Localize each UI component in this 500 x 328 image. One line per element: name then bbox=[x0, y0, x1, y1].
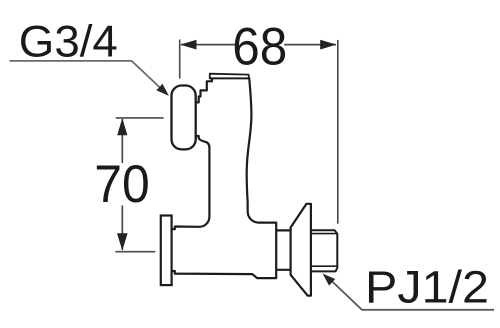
svg-text:70: 70 bbox=[94, 155, 150, 214]
dim 68: left extension line bbox=[179, 40, 181, 79]
PJ1/2 leader arrowhead bbox=[323, 274, 336, 286]
nipple PJ1/2 thread bbox=[308, 230, 337, 271]
dim 70: down arrowhead bbox=[117, 233, 128, 250]
neck to cone bbox=[276, 230, 290, 269]
dim 68: left arrowhead bbox=[180, 40, 196, 50]
dim 68: right arrowhead bbox=[320, 40, 336, 50]
dim 70: upper extension line bbox=[116, 117, 164, 119]
dim 68: right extension line bbox=[337, 40, 339, 224]
main body silhouette (pipe + horizontal arm) bbox=[171, 78, 276, 278]
svg-text:PJ1/2: PJ1/2 bbox=[365, 262, 489, 313]
capsule G3/4 fitting bbox=[172, 86, 196, 150]
dim 68: dimension line left segment bbox=[181, 44, 235, 46]
dim 70: up arrowhead bbox=[117, 118, 127, 135]
dim 70: vertical dimension line lower bbox=[121, 206, 123, 251]
top cap bbox=[210, 74, 249, 79]
nipple thread minor lines bbox=[308, 234, 337, 267]
G3/4 leader underline bbox=[10, 61, 163, 90]
PJ1/2 leader line bbox=[328, 278, 494, 310]
svg-text:68: 68 bbox=[232, 18, 287, 77]
svg-text:G3/4: G3/4 bbox=[19, 16, 118, 66]
dim 70: vertical dimension line upper bbox=[121, 119, 123, 163]
wall flange bbox=[161, 216, 172, 286]
dim 68: dimension line right segment bbox=[284, 44, 336, 46]
G3/4 leader arrowhead bbox=[156, 84, 169, 96]
dim 70: lower extension line bbox=[115, 251, 155, 253]
cone escutcheon bbox=[291, 204, 311, 296]
